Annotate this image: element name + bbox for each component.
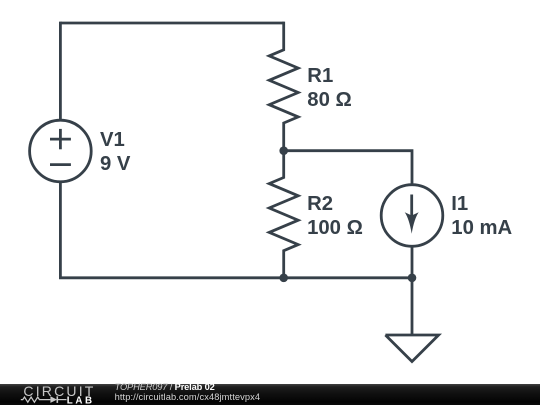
- node bottom-left junction dot: [279, 274, 288, 283]
- CircuitLab logo: [0, 382, 110, 405]
- node A junction dot: [279, 146, 288, 155]
- attribution text: [115, 382, 261, 402]
- logo resistor squiggle: [21, 397, 51, 402]
- node bottom-right junction dot: [408, 274, 417, 283]
- wire left lower (V1 to bottom corner): [59, 181, 62, 278]
- label I1 10 mA: [451, 193, 512, 240]
- wire right lower (I1 to bottom node): [411, 246, 414, 278]
- current source I1: [381, 185, 443, 247]
- resistor R2: [269, 151, 298, 278]
- wire left upper (top corner to V1): [59, 22, 62, 121]
- logo diode: [50, 396, 57, 403]
- label V1 9 V: [100, 129, 130, 176]
- wire bottom (V1 to I1): [59, 276, 412, 279]
- wire middle (node A to I1 top): [284, 151, 412, 185]
- wire top (V1 to R1): [60, 22, 283, 25]
- wire ground stem: [411, 278, 414, 335]
- voltage source V1: [30, 120, 92, 182]
- ground: [385, 335, 438, 362]
- resistor R1: [269, 22, 298, 151]
- svg-text:LAB: LAB: [67, 395, 95, 405]
- label R1 80 Ohm: [307, 65, 351, 112]
- label R2 100 Ohm: [307, 193, 363, 240]
- footer bar: [0, 384, 540, 405]
